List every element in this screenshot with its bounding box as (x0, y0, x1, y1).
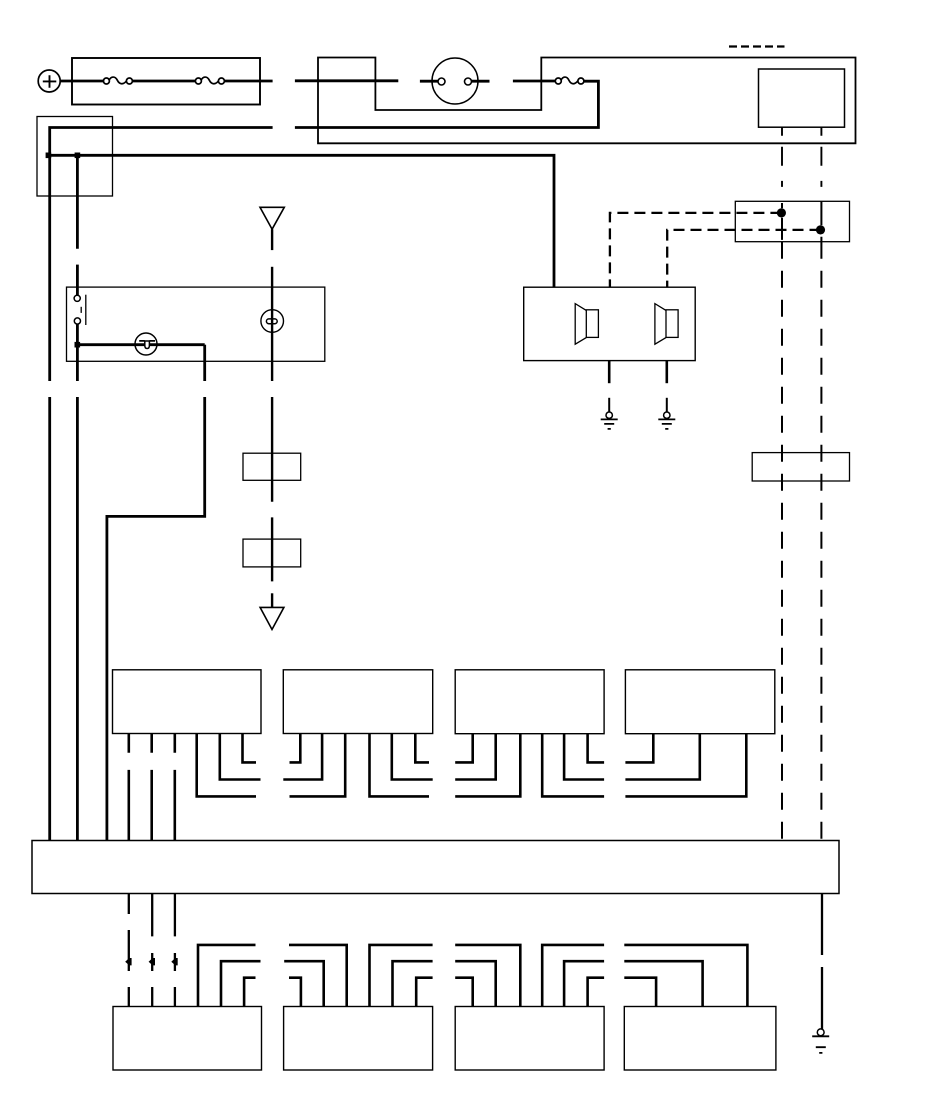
wire stub into ignition switch (420, 80, 438, 83)
vertical wire x77.4 upper (76, 155, 79, 248)
upper component box 4 (625, 670, 774, 734)
wire y345 dot to corner x204.7 (77, 343, 204, 346)
right speaker ground wire (665, 361, 668, 384)
lower dashed wire b (151, 894, 153, 1007)
fuse F2 (195, 77, 224, 84)
arrow mark a (125, 958, 131, 965)
vertical wire x49.5 upper (48, 155, 51, 381)
upper component box 3 (455, 670, 604, 734)
lower box2 right hooks (370, 945, 433, 1007)
dashed wire to left speaker (610, 213, 782, 287)
radio switch terminal 1 (74, 295, 80, 301)
lower box3 left hooks (455, 945, 520, 1007)
wire F3 right then down at x598 and y128 right segment (295, 81, 599, 127)
dashed wire to right speaker (667, 230, 820, 287)
ignition switch SW1 (432, 58, 478, 104)
wire segment to ignition switch (295, 79, 398, 82)
wire y128 left segment with corner down (50, 128, 273, 156)
right ground (812, 1029, 829, 1053)
battery B1 (38, 70, 60, 92)
mid-right connector box (752, 453, 849, 481)
upper component box 2 (283, 670, 432, 734)
left connector box (37, 117, 113, 197)
antenna lead segment 2 (271, 517, 273, 581)
upper box1 wire c to bus (174, 734, 177, 841)
vertical wire x49.5 lower (48, 397, 51, 841)
upper box3 right hooks (542, 734, 604, 797)
big relay box with notch (318, 58, 856, 144)
junction dot E (816, 225, 825, 234)
wire terminal2 to dot (76, 324, 79, 345)
right ground wire (821, 894, 823, 1030)
junction dot B (75, 153, 81, 159)
wire x204.7 to corner then left then down x106.9 (107, 397, 205, 841)
dashed vertical bus 2 (820, 201, 822, 241)
antenna end arrow (260, 607, 284, 629)
antenna lead segment (271, 267, 273, 287)
upper box1 wire b to bus (150, 734, 153, 841)
wire segment to fuse F3 (513, 80, 556, 83)
antenna connector box 1 (243, 453, 301, 480)
radio box (67, 287, 325, 361)
antenna mast (260, 207, 284, 250)
lower box2 left hooks (284, 945, 347, 1007)
upper box3 left hooks (455, 734, 520, 797)
dash-dot wire from inner box pin 2 (820, 127, 822, 187)
radio switch blade (85, 295, 87, 325)
upper box2 right hooks (370, 734, 433, 797)
upper box1 wire a to bus (128, 734, 131, 841)
radio switch dash (80, 307, 82, 313)
fuse F3 (555, 77, 584, 84)
lower component box 4 (624, 1007, 776, 1071)
lower component box 3 (455, 1007, 604, 1071)
upper box2 left hooks (283, 734, 345, 797)
antenna lead segment 3 (271, 593, 273, 607)
lower box3 right hooks (542, 945, 604, 1007)
wire y155 to x554 then down to speaker box (48, 155, 554, 287)
left speaker ground (601, 412, 618, 429)
dash-dot wire from inner box pin 1 (781, 127, 783, 187)
lower box4 left hooks (624, 945, 747, 1007)
antenna lead through radio box (271, 287, 273, 381)
antenna connector box 2 (243, 539, 301, 567)
fuse F1 (103, 77, 132, 84)
dashed stub above inner box (729, 45, 785, 47)
wire F2 to break (225, 80, 273, 83)
right speaker ground (658, 412, 675, 429)
wire F1 to F2 (133, 80, 196, 83)
upper box1 right hooks (197, 734, 261, 797)
radio switch terminal 2 (74, 318, 80, 324)
antenna jack (261, 310, 284, 333)
lower component box 1 (113, 1007, 262, 1071)
dashed vertical bus 1 (781, 203, 783, 240)
bus bar junction block (32, 841, 839, 894)
arrow mark c (171, 958, 177, 965)
junction dot D (777, 208, 786, 217)
wire from ignition switch (472, 80, 490, 83)
vertical wire x77.4 bottom run (76, 397, 79, 841)
speaker box (524, 287, 696, 360)
vertical wire x77.4 segment to radio (76, 265, 79, 295)
lower component box 2 (284, 1007, 433, 1071)
left speaker ground wire (608, 361, 611, 384)
upper component box 1 (113, 670, 262, 734)
fuse box (72, 58, 260, 105)
lower box1 right hooks (198, 945, 261, 1007)
lower dashed wire c (174, 894, 176, 1007)
junction dot A (46, 153, 52, 159)
vertical wire x77.4 below dot (76, 345, 79, 381)
speaker icon left (575, 304, 598, 345)
lamp L1 (135, 333, 157, 355)
upper box4 left hooks (625, 734, 746, 797)
junction dot C (75, 342, 81, 348)
inner control unit box (759, 69, 845, 127)
speaker icon right (655, 304, 678, 345)
wire battery to fuse F1 (60, 80, 104, 83)
lower dashed wire a (128, 894, 130, 1007)
wire x204.7 down from lamp line (203, 345, 206, 381)
antenna lead below radio (271, 397, 273, 502)
arrow mark b (149, 958, 155, 965)
junction connector box (735, 201, 849, 241)
